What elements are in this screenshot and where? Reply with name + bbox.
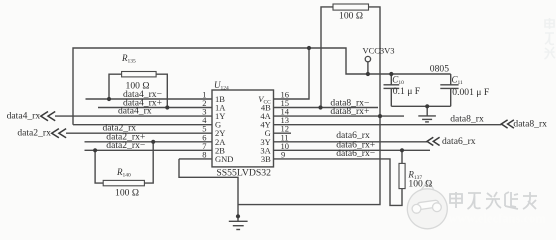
svg-text:8: 8 [202, 149, 206, 159]
svg-text:R135: R135 [121, 53, 136, 65]
svg-text:data4_rx: data4_rx [118, 106, 152, 117]
svg-text:www.elecfans.com: www.elecfans.com [449, 212, 547, 226]
svg-text:data8_rx: data8_rx [450, 114, 484, 125]
svg-text:data2_rx−: data2_rx− [106, 140, 145, 151]
svg-text:100 Ω: 100 Ω [339, 11, 363, 22]
svg-text:data4_rx: data4_rx [7, 110, 41, 121]
svg-text:3B: 3B [261, 154, 271, 164]
svg-text:VCC3V3: VCC3V3 [362, 45, 394, 55]
svg-text:0.001 μ F: 0.001 μ F [452, 87, 489, 98]
svg-text:0805: 0805 [430, 63, 449, 74]
svg-text:data6_rx−: data6_rx− [336, 148, 375, 159]
svg-text:U124: U124 [214, 80, 229, 92]
svg-text:C10: C10 [392, 74, 404, 86]
svg-text:data2_rx: data2_rx [17, 128, 51, 139]
svg-text:9: 9 [281, 149, 285, 159]
svg-text:C11: C11 [452, 74, 464, 86]
svg-text:data8_rx: data8_rx [513, 118, 547, 129]
svg-text:data6_rx: data6_rx [442, 136, 476, 147]
svg-text:100 Ω: 100 Ω [126, 80, 150, 91]
svg-text:0.1 μ F: 0.1 μ F [393, 86, 420, 97]
svg-text:100 Ω: 100 Ω [408, 178, 432, 189]
svg-text:SS55LVDS32: SS55LVDS32 [216, 168, 271, 179]
svg-text:100 Ω: 100 Ω [115, 188, 139, 199]
svg-text:R140: R140 [116, 167, 131, 179]
svg-text:data8_rx+: data8_rx+ [330, 106, 369, 117]
svg-text:GND: GND [215, 154, 233, 164]
